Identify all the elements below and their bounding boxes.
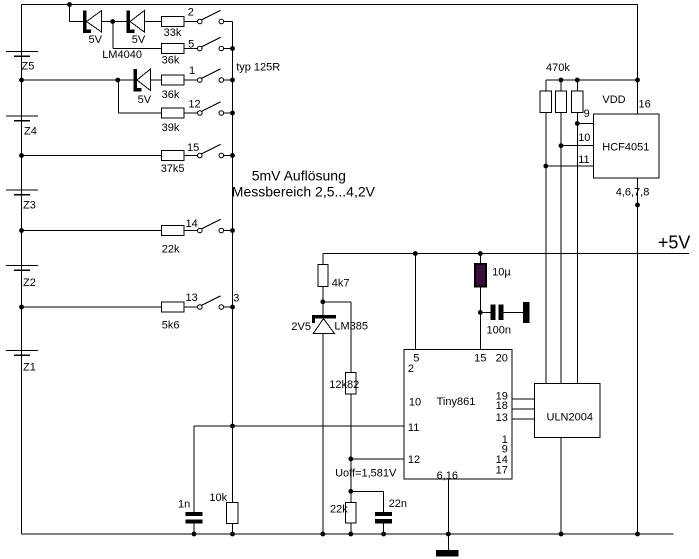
wire ground stub bbox=[447, 534, 449, 550]
svg-text:14: 14 bbox=[186, 218, 198, 230]
svg-text:Z1: Z1 bbox=[23, 362, 36, 374]
wire node to 12k82 bbox=[323, 302, 351, 373]
svg-text:15: 15 bbox=[187, 142, 199, 154]
wire 22k to rail bbox=[350, 523, 352, 534]
wire row3 bbox=[22, 79, 198, 81]
wire row3 to bus bbox=[224, 79, 233, 81]
label Tiny861 pin 14 bbox=[496, 454, 508, 466]
node col3 pin9 bbox=[575, 121, 580, 126]
svg-text:39k: 39k bbox=[162, 122, 180, 134]
zener LM385 2V5 bbox=[291, 315, 368, 333]
svg-text:10µ: 10µ bbox=[492, 266, 511, 278]
resistor 470k a bbox=[540, 91, 551, 113]
label Tiny861 pin 5 bbox=[413, 352, 419, 364]
op-amp U1 Tiny861 box bbox=[404, 350, 512, 480]
node 22n tee bbox=[348, 489, 353, 494]
label HCF pin 9 bbox=[584, 108, 590, 120]
wire row13 to bus bbox=[224, 306, 233, 308]
node right rail 470k bbox=[635, 78, 640, 83]
label Tiny861 pin 20 bbox=[496, 352, 508, 364]
node bus row3 bbox=[230, 78, 235, 83]
wire rail corner into 4k7 bbox=[322, 254, 324, 265]
wire 10k to rail bbox=[232, 524, 234, 534]
label Tiny861 pin 6,16 bbox=[437, 470, 458, 482]
wire 10u top bbox=[479, 254, 481, 265]
svg-text:11: 11 bbox=[408, 422, 419, 434]
svg-text:2V5: 2V5 bbox=[291, 321, 311, 333]
svg-text:15: 15 bbox=[474, 352, 486, 364]
node 1n ground bbox=[192, 532, 197, 537]
label HCF pin 11 bbox=[578, 154, 589, 166]
node row3 junction bbox=[115, 78, 120, 83]
wire +5V rail bbox=[323, 253, 689, 255]
wire col3 down bbox=[576, 113, 578, 384]
battery cell Z2 bbox=[6, 265, 38, 289]
svg-text:10k: 10k bbox=[209, 492, 227, 504]
node row1 junction bbox=[110, 19, 115, 24]
wire row1 bbox=[70, 21, 198, 23]
label ULN2004 name bbox=[547, 412, 593, 424]
svg-text:Messbereich 2,5...4,2V: Messbereich 2,5...4,2V bbox=[232, 183, 376, 199]
svg-text:12: 12 bbox=[408, 454, 420, 466]
wire 100n left bbox=[480, 311, 490, 313]
node 22k ground bbox=[348, 532, 353, 537]
wire row15 bbox=[22, 155, 198, 157]
wire row14 to bus bbox=[224, 230, 233, 232]
resistor 36k row2 bbox=[162, 44, 185, 67]
wire 1n to rail bbox=[193, 524, 195, 534]
svg-text:5V: 5V bbox=[132, 34, 146, 46]
wire 12k82 node down bbox=[350, 459, 352, 502]
wire row4 to bus bbox=[224, 112, 233, 114]
wire 10k top bbox=[232, 426, 234, 503]
ground symbol bbox=[436, 550, 458, 557]
node 470k col2 top bbox=[559, 78, 564, 83]
wire node to LM385 bbox=[322, 302, 324, 315]
wire row15 to bus bbox=[224, 155, 233, 157]
svg-text:VDD: VDD bbox=[602, 94, 625, 106]
label Tiny861 pin 19 bbox=[496, 391, 508, 403]
resistor 22k bottom bbox=[330, 502, 356, 523]
svg-text:Tiny861: Tiny861 bbox=[437, 396, 476, 408]
svg-text:5k6: 5k6 bbox=[162, 319, 180, 331]
svg-text:36k: 36k bbox=[162, 89, 180, 101]
svg-text:13: 13 bbox=[496, 412, 508, 424]
svg-text:36k: 36k bbox=[162, 55, 180, 67]
node 470k col3 top bbox=[575, 78, 580, 83]
svg-text:Z2: Z2 bbox=[23, 277, 36, 289]
label Messbereich bbox=[232, 183, 376, 199]
switch 12 bbox=[188, 98, 223, 115]
node 10k ground bbox=[230, 532, 235, 537]
resistor 470k c bbox=[572, 91, 583, 113]
wire pin12 bbox=[351, 458, 404, 460]
resistor 39k bbox=[162, 108, 185, 134]
wire HCF bottom drop bbox=[637, 178, 639, 254]
svg-text:5V: 5V bbox=[89, 34, 103, 46]
wire col3 stub bbox=[576, 80, 578, 91]
label Tiny861 pin 10 bbox=[409, 397, 421, 409]
wire 22n branch bbox=[351, 491, 384, 512]
wire LM385 anode to ground rail bbox=[322, 333, 324, 534]
wire left rail bbox=[21, 5, 23, 535]
wire row2 to bus bbox=[224, 48, 233, 50]
resistor 22k row14 bbox=[162, 226, 185, 256]
svg-text:5V: 5V bbox=[138, 94, 152, 106]
resistor 33k bbox=[162, 17, 185, 40]
label Tiny861 pin 15 bbox=[474, 352, 486, 364]
svg-text:3: 3 bbox=[233, 293, 239, 305]
resistor 10k bbox=[209, 492, 238, 524]
svg-text:+5V: +5V bbox=[658, 233, 691, 253]
wire col1 down bbox=[545, 113, 547, 384]
label 470k bbox=[546, 62, 570, 74]
battery cell Z3 bbox=[6, 189, 38, 211]
node right rail bottom bbox=[635, 532, 640, 537]
resistor 36k row3 bbox=[162, 75, 185, 101]
svg-text:Uoff=1,581V: Uoff=1,581V bbox=[335, 468, 397, 480]
wire 12k82 to pin12 node bbox=[350, 394, 352, 459]
svg-text:LM385: LM385 bbox=[334, 320, 368, 332]
wire pin10 bbox=[561, 145, 593, 147]
node bus bottom tee bbox=[230, 424, 235, 429]
svg-text:16: 16 bbox=[639, 98, 651, 110]
switch 1 bbox=[189, 65, 224, 82]
svg-text:20: 20 bbox=[496, 352, 508, 364]
wire row14 bbox=[22, 230, 198, 232]
svg-text:5: 5 bbox=[188, 39, 194, 51]
wire ADC node bbox=[194, 425, 404, 427]
svg-text:100n: 100n bbox=[487, 325, 511, 337]
node bus row2 bbox=[230, 46, 235, 51]
wire bottom rail bbox=[22, 533, 674, 535]
node rail pin5 bbox=[413, 251, 418, 256]
resistor 12k82 bbox=[329, 373, 359, 394]
label Uoff bbox=[335, 468, 397, 480]
svg-text:LM4040: LM4040 bbox=[102, 49, 142, 61]
wire top drop to row1 bbox=[69, 5, 71, 22]
node bus row14 bbox=[230, 228, 235, 233]
svg-text:5: 5 bbox=[413, 352, 419, 364]
wire pin11 hcf bbox=[546, 165, 594, 167]
label HCF pin 10 bbox=[578, 132, 590, 144]
svg-text:11: 11 bbox=[578, 154, 589, 166]
node bus row15 bbox=[230, 153, 235, 158]
label Tiny861 pin 9 bbox=[502, 444, 508, 456]
label Tiny861 pin 2 bbox=[408, 363, 414, 375]
wire top rail bbox=[22, 4, 638, 6]
wire pin15 drop bbox=[479, 312, 481, 349]
wire pin6-16 drop bbox=[447, 479, 449, 534]
label Tiny861 pin 13 bbox=[496, 412, 508, 424]
node 22n ground bbox=[381, 532, 386, 537]
svg-text:Z4: Z4 bbox=[24, 126, 37, 138]
wire 1n drop bbox=[193, 426, 195, 512]
node ULN ground bbox=[559, 532, 564, 537]
wire 470k top bbox=[546, 79, 638, 81]
label HCF4051 name bbox=[602, 142, 649, 154]
node top rail junction bbox=[67, 2, 72, 7]
svg-text:Z5: Z5 bbox=[22, 61, 35, 73]
battery cell Z1 bbox=[6, 350, 38, 374]
transistor array U3 ULN2004 box bbox=[534, 384, 600, 438]
node col2 pin10 bbox=[559, 143, 564, 148]
svg-text:13: 13 bbox=[186, 292, 198, 304]
svg-text:1n: 1n bbox=[178, 498, 190, 510]
capacitor C 100n bbox=[487, 305, 511, 337]
svg-text:18: 18 bbox=[496, 400, 508, 412]
wire ULN bottom bbox=[560, 437, 562, 534]
node 100n tee bbox=[478, 310, 483, 315]
node col1 pin11 bbox=[543, 164, 548, 169]
zener D2 5V bbox=[127, 10, 146, 46]
node 4k7 bottom bbox=[320, 299, 325, 304]
node left rail row3 bbox=[19, 78, 24, 83]
svg-text:22k: 22k bbox=[330, 504, 348, 516]
node LM385 ground bbox=[320, 532, 325, 537]
svg-text:HCF4051: HCF4051 bbox=[602, 142, 649, 154]
label HCF pins 4,6,7,8 bbox=[616, 187, 650, 199]
capacitor C 22n bbox=[375, 498, 407, 523]
svg-text:12: 12 bbox=[188, 98, 200, 110]
svg-text:4,6,7,8: 4,6,7,8 bbox=[616, 187, 650, 199]
svg-text:typ 125R: typ 125R bbox=[236, 62, 280, 74]
switch 5 bbox=[188, 37, 224, 51]
op-amp U2 HCF4051 box bbox=[593, 114, 659, 178]
resistor 4k7 bbox=[318, 264, 349, 289]
node bus row13 bbox=[230, 305, 235, 310]
label LM4040 bbox=[102, 49, 142, 61]
resistor 5k6 bbox=[162, 302, 185, 331]
svg-text:10: 10 bbox=[409, 397, 421, 409]
wire col1 stub bbox=[545, 80, 547, 91]
label VDD bbox=[602, 94, 625, 106]
label Tiny861 pin 11 bbox=[408, 422, 419, 434]
wire 4k7 to node bbox=[322, 286, 324, 302]
svg-text:17: 17 bbox=[496, 464, 508, 476]
label pin 3 bus bbox=[233, 293, 239, 305]
wire 10u to 100n node bbox=[479, 287, 481, 313]
label +5V bbox=[658, 233, 691, 253]
node left rail row15 bbox=[19, 153, 24, 158]
ground 100n side bar bbox=[523, 302, 529, 323]
wire pin13 bbox=[512, 418, 534, 420]
svg-text:33k: 33k bbox=[164, 27, 182, 39]
wire switch bus bbox=[232, 22, 234, 427]
svg-text:1: 1 bbox=[189, 65, 195, 77]
wire 100n right bbox=[504, 311, 524, 313]
wire row13 bbox=[22, 306, 198, 308]
node left rail row14 bbox=[19, 228, 24, 233]
node left rail row13 bbox=[19, 305, 24, 310]
label Tiny861 pin 12 bbox=[408, 454, 420, 466]
resistor 37k5 bbox=[161, 151, 185, 176]
svg-text:ULN2004: ULN2004 bbox=[547, 412, 593, 424]
label HCF pin 16 bbox=[639, 98, 651, 110]
svg-text:37k5: 37k5 bbox=[161, 163, 185, 175]
zener D1 5V bbox=[83, 10, 103, 46]
battery cell Z4 bbox=[6, 115, 38, 137]
svg-text:2: 2 bbox=[408, 363, 414, 375]
node pin12 tee bbox=[348, 457, 353, 462]
svg-text:12k82: 12k82 bbox=[329, 379, 359, 391]
svg-text:2: 2 bbox=[188, 7, 194, 19]
label Tiny861 pin 18 bbox=[496, 400, 508, 412]
node pin6-16 ground bbox=[446, 532, 451, 537]
wire pin19 bbox=[512, 398, 534, 400]
label 5mV Aufloesung bbox=[252, 168, 346, 184]
svg-text:22k: 22k bbox=[162, 243, 180, 255]
svg-text:10: 10 bbox=[578, 132, 590, 144]
capacitor C 10u electrolytic bbox=[475, 264, 511, 286]
wire pin5 drop bbox=[414, 254, 416, 350]
switch 14 bbox=[186, 218, 224, 233]
wire row1 drop to row2 bbox=[113, 22, 198, 49]
wire pin16 drop bbox=[637, 80, 639, 114]
label typ 125R bbox=[236, 62, 280, 74]
wire col2 stub bbox=[560, 80, 562, 91]
wire col2 down bbox=[560, 113, 562, 384]
node rail 10u bbox=[478, 251, 483, 256]
wire row1 to bus bbox=[224, 21, 233, 23]
wire row3 drop to row4 bbox=[118, 80, 197, 113]
label Tiny861 name bbox=[437, 396, 476, 408]
svg-text:Z3: Z3 bbox=[23, 200, 36, 212]
label Tiny861 pin 1 bbox=[502, 434, 508, 446]
svg-text:6,16: 6,16 bbox=[437, 470, 458, 482]
battery cell Z5 bbox=[6, 51, 38, 73]
wire pin9 bbox=[577, 123, 593, 125]
switch 15 bbox=[187, 142, 224, 158]
svg-text:470k: 470k bbox=[546, 62, 570, 74]
node bus row4 bbox=[230, 111, 235, 116]
node HCF drop dot bbox=[635, 203, 640, 208]
resistor 470k b bbox=[556, 91, 567, 113]
wire 22n to rail bbox=[383, 523, 385, 534]
svg-text:22n: 22n bbox=[389, 498, 407, 510]
wire right rail bbox=[637, 5, 639, 535]
zener D3 5V bbox=[134, 69, 152, 106]
capacitor C 1n bbox=[178, 498, 202, 523]
switch 13 bbox=[186, 292, 224, 309]
svg-text:5mV Auflösung: 5mV Auflösung bbox=[252, 168, 346, 184]
svg-text:4k7: 4k7 bbox=[332, 277, 350, 289]
switch 2 bbox=[188, 7, 224, 24]
label Tiny861 pin 17 bbox=[496, 464, 508, 476]
wire pin18 bbox=[512, 408, 534, 410]
svg-text:9: 9 bbox=[584, 108, 590, 120]
